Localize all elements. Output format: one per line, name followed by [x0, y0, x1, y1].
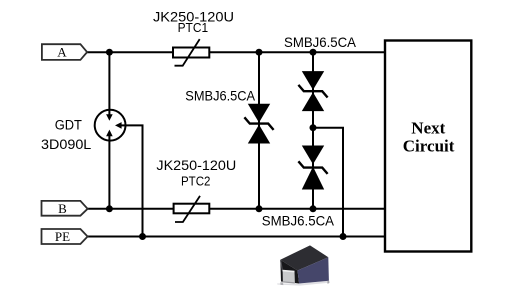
- node junction A/GDT: [106, 49, 113, 56]
- wire PE line: [88, 236, 385, 238]
- next circuit block: [385, 41, 471, 252]
- svg-text:SMBJ6.5CA: SMBJ6.5CA: [262, 212, 335, 228]
- package right face: [298, 257, 329, 283]
- gas discharge tube GDT: [95, 110, 126, 141]
- wire GDT bottom to B line: [108, 141, 110, 209]
- node junction A/TVS2: [310, 49, 317, 56]
- svg-text:SMBJ6.5CA: SMBJ6.5CA: [185, 87, 255, 103]
- svg-text:Next: Next: [411, 118, 445, 137]
- node junction TVS midpoint: [310, 124, 317, 131]
- svg-text:A: A: [57, 44, 67, 59]
- wire right TVS branch: [312, 52, 314, 209]
- svg-text:JK250-120U: JK250-120U: [156, 157, 236, 173]
- svg-text:PE: PE: [55, 229, 70, 244]
- node junction A/TVS1: [256, 49, 263, 56]
- package left terminal tab: [283, 270, 295, 283]
- node junction B/TVS1: [256, 205, 263, 212]
- svg-text:3D090L: 3D090L: [41, 136, 92, 152]
- wire B line left segment: [88, 208, 174, 210]
- package left terminal foot: [280, 282, 283, 285]
- TVS diode D3 (right branch lower, SMBJ6.5CA): [298, 146, 327, 190]
- terminal PE: [42, 229, 88, 244]
- svg-text:PTC2: PTC2: [181, 173, 210, 188]
- node junction B/TVS2: [310, 205, 317, 212]
- package left face: [280, 260, 299, 284]
- wire TVS midpoint to PE: [313, 128, 343, 237]
- resistor PTC2: [174, 196, 210, 222]
- package right terminal foot: [327, 281, 329, 284]
- terminal B: [42, 201, 88, 216]
- wire A line left segment: [87, 51, 173, 53]
- svg-text:B: B: [58, 201, 67, 216]
- SMB package photo (3D render): [277, 245, 330, 285]
- package shadow: [277, 281, 330, 286]
- wire A line right segment: [209, 51, 385, 53]
- node junction PE/GDT: [139, 233, 146, 240]
- package top face: [280, 245, 328, 270]
- svg-text:Circuit: Circuit: [403, 137, 455, 156]
- wire GDT third electrode to PE: [126, 125, 143, 236]
- svg-text:PTC1: PTC1: [178, 20, 209, 35]
- TVS diode D2 (right branch upper, SMBJ6.5CA): [298, 71, 327, 111]
- terminal A: [42, 44, 87, 60]
- node junction PE/TVS midpoint: [340, 233, 347, 240]
- wire junction A to GDT top: [108, 52, 110, 110]
- TVS diode D1 (left branch, SMBJ6.5CA): [244, 104, 273, 144]
- svg-text:GDT: GDT: [55, 118, 82, 133]
- wire B line right segment: [209, 208, 385, 210]
- svg-text:SMBJ6.5CA: SMBJ6.5CA: [284, 34, 357, 50]
- package left edge line: [281, 260, 283, 271]
- wire left TVS branch: [258, 52, 260, 209]
- resistor PTC1: [173, 39, 209, 66]
- node junction B/GDT: [106, 205, 113, 212]
